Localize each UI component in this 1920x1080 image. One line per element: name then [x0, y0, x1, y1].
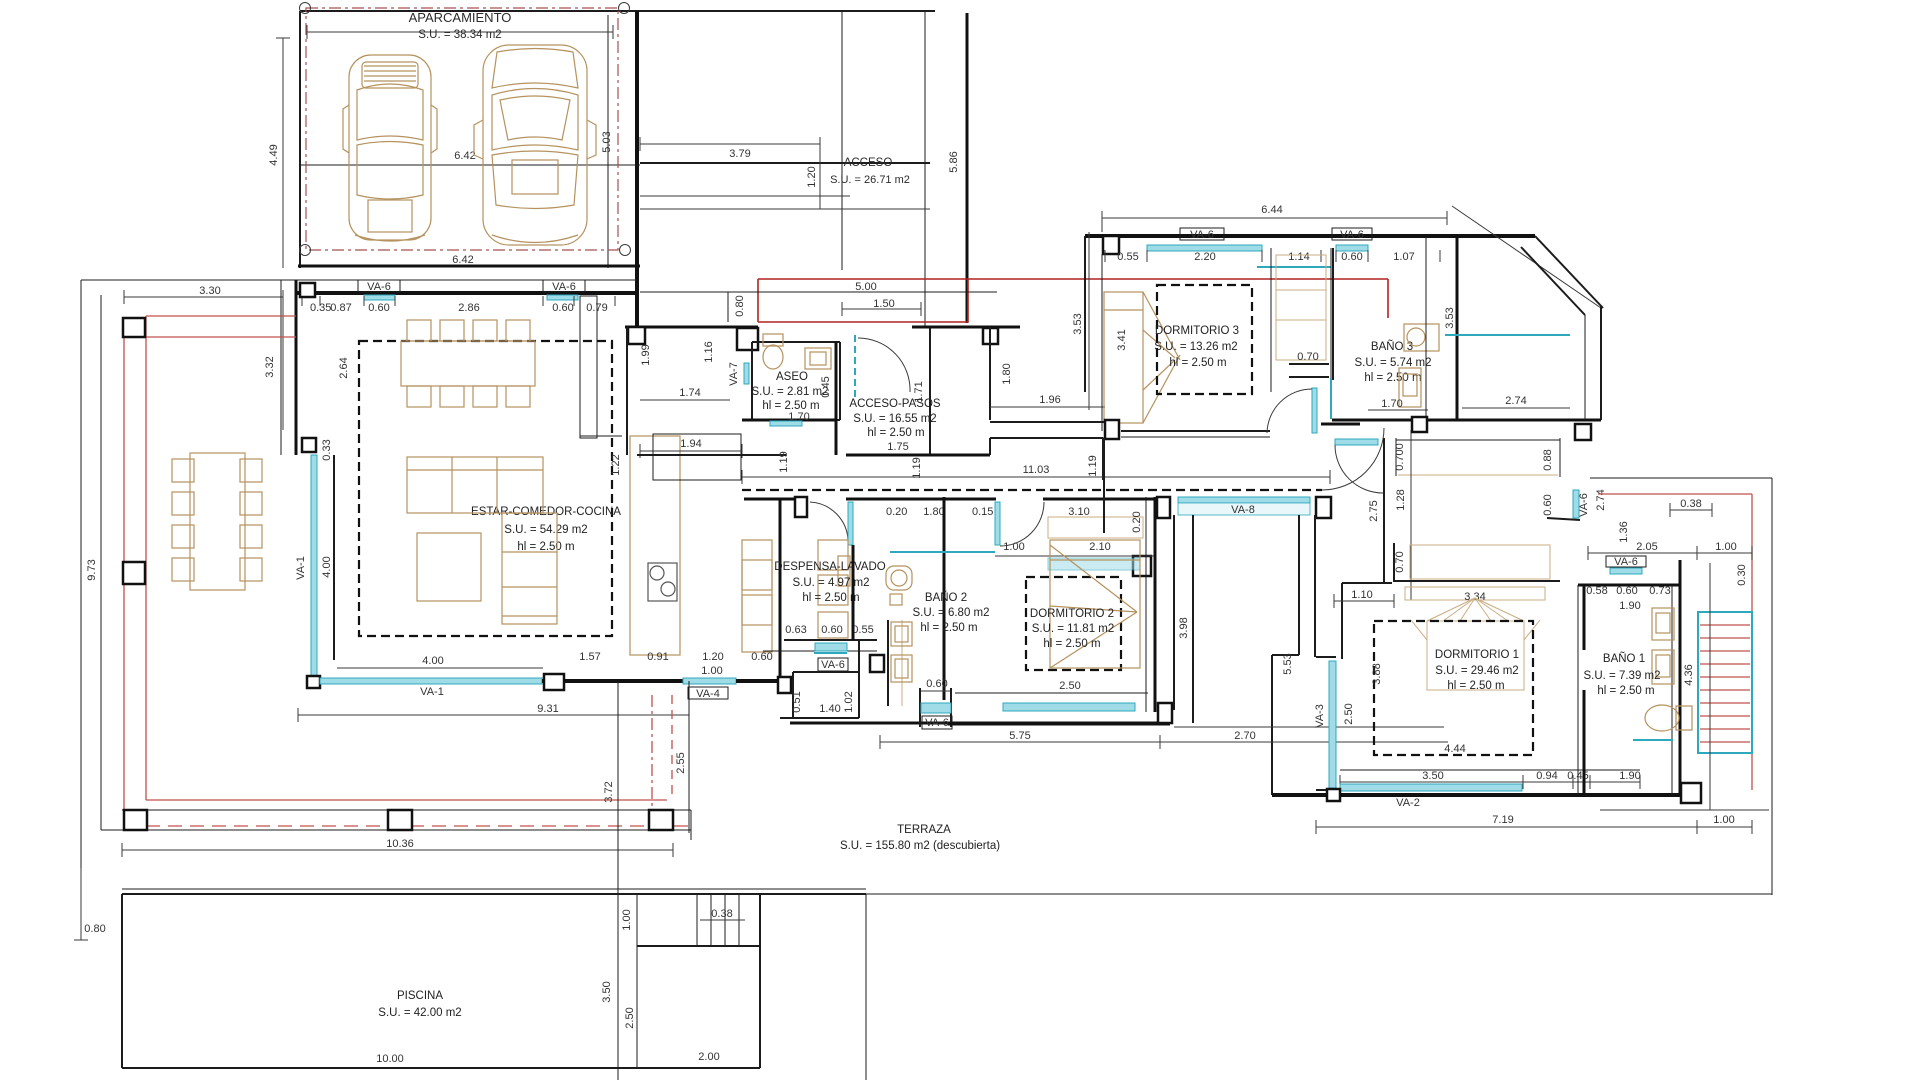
steps bottom [637, 945, 760, 947]
porch step vertical [727, 292, 729, 322]
svg-text:2.70: 2.70 [1234, 730, 1255, 742]
dorm3 bed [1104, 292, 1180, 423]
pillar despensa SE [870, 655, 884, 672]
svg-text:10.36: 10.36 [386, 838, 414, 850]
garage bottom wall [298, 265, 640, 268]
svg-text:5.86: 5.86 [948, 151, 960, 172]
svg-text:0.60: 0.60 [552, 302, 573, 314]
svg-text:VA-6: VA-6 [1190, 229, 1214, 241]
svg-text:2.75: 2.75 [1368, 500, 1380, 521]
corner terrace cyan window [1445, 334, 1570, 336]
svg-text:VA-1: VA-1 [420, 686, 444, 698]
svg-text:3.50: 3.50 [601, 981, 613, 1002]
corridor to dorm1: verticals [1547, 518, 1580, 520]
svg-text:VA-6: VA-6 [367, 281, 391, 293]
bano2 shower cyan [890, 551, 995, 553]
dorm1 bottom wall [1272, 793, 1700, 797]
svg-text:1.22: 1.22 [610, 454, 622, 475]
window VA-6 bano3 cyan [1336, 245, 1368, 251]
dim line 6.05 top [307, 31, 613, 33]
piscina right wall [759, 894, 761, 1068]
wing top wall [1085, 234, 1535, 238]
acceso left wall [841, 11, 843, 270]
svg-text:VA-7: VA-7 [728, 362, 740, 386]
window VA-7 cyan left [744, 363, 749, 384]
dim 0.38 [1670, 509, 1712, 511]
dining table [401, 320, 535, 407]
svg-text:2.50: 2.50 [1059, 680, 1080, 692]
dim 1.74 [640, 399, 730, 401]
entry steps block [792, 672, 794, 718]
svg-text:4.44: 4.44 [1444, 743, 1465, 755]
terraza bottom boundary [866, 893, 1772, 895]
dim 3.30 [124, 296, 283, 298]
porch red bottom [758, 321, 968, 323]
closet bottom frame [1289, 363, 1329, 365]
stairs [1698, 563, 1752, 810]
window VA-1 vertical cyan [311, 455, 317, 676]
svg-text:2.50: 2.50 [624, 1007, 636, 1028]
dorm2 right wall [1145, 497, 1147, 712]
svg-text:1.80: 1.80 [1001, 363, 1013, 384]
svg-text:VA-8: VA-8 [1231, 504, 1255, 516]
red roof line top [146, 315, 296, 317]
svg-text:0.70: 0.70 [1394, 551, 1406, 572]
bano3 sink [1404, 324, 1439, 351]
svg-text:2.20: 2.20 [1194, 251, 1215, 263]
dorm3 dashed box [1157, 285, 1252, 394]
window VA-6 left label box [358, 280, 400, 292]
dorm3 bottom wall [1121, 430, 1270, 432]
cyan door frame bano2 left [848, 502, 853, 545]
corridor south wall left piece [744, 498, 806, 501]
kitchen tall column [580, 296, 597, 438]
svg-text:VA-6: VA-6 [821, 659, 845, 671]
svg-text:0.63: 0.63 [785, 624, 806, 636]
aseo left wall [626, 327, 628, 455]
path line low [640, 208, 930, 210]
svg-text:0.94: 0.94 [1536, 770, 1557, 782]
svg-text:1.20: 1.20 [702, 651, 723, 663]
cyan door frame 2 [995, 502, 1000, 545]
right terrace top line [1590, 477, 1772, 479]
door arc corridor right [1322, 428, 1384, 490]
svg-text:1.94: 1.94 [680, 438, 701, 450]
window VA-4 cyan [683, 678, 736, 684]
svg-text:S.U. = 42.00 m2: S.U. = 42.00 m2 [378, 1007, 461, 1019]
svg-text:0.45: 0.45 [820, 376, 832, 397]
entry door swing [858, 338, 910, 392]
svg-text:0.38: 0.38 [1680, 498, 1701, 510]
bano3 left wall [1332, 248, 1334, 380]
pillar wing BR [1681, 783, 1701, 803]
pillar mid left [123, 562, 145, 584]
red roof right top [1598, 493, 1752, 495]
dorm2 window sill [955, 692, 1148, 694]
corner circle BL [300, 245, 311, 256]
svg-text:hl = 2.50 m: hl = 2.50 m [920, 622, 977, 634]
dims 3.50 0.94 0.45 1.90 [1340, 781, 1640, 783]
svg-text:hl = 2.50 m: hl = 2.50 m [517, 541, 574, 553]
porch floor line 2 [842, 308, 921, 310]
svg-text:1.00: 1.00 [1713, 814, 1734, 826]
band right end [690, 810, 692, 840]
dim 2.74 [1462, 407, 1570, 409]
window VA-8 cyan [1178, 497, 1310, 503]
dim 7.19 / 1.00 [1316, 826, 1697, 828]
svg-text:1.10: 1.10 [1351, 589, 1372, 601]
living left wall [295, 280, 298, 455]
svg-text:1.20: 1.20 [806, 166, 818, 187]
svg-text:9.73: 9.73 [86, 559, 98, 580]
svg-text:1.96: 1.96 [1039, 394, 1060, 406]
sofa [407, 457, 557, 624]
svg-text:S.U. = 155.80 m2 (descubierta): S.U. = 155.80 m2 (descubierta) [840, 840, 1000, 852]
piscina bottom wall [122, 1067, 760, 1069]
east wall below [989, 327, 991, 420]
svg-text:hl = 2.50 m: hl = 2.50 m [867, 427, 924, 439]
svg-text:1.00: 1.00 [1003, 541, 1024, 553]
dashed ESTAR boundary [359, 341, 612, 636]
pillar top-left [300, 283, 315, 297]
roof diagonal thin [1452, 206, 1601, 308]
svg-text:0.87: 0.87 [330, 302, 351, 314]
dim 1.10 [1334, 600, 1394, 602]
steps left vertical [636, 894, 638, 1068]
corridor north wall left [637, 454, 786, 456]
porch red left [757, 279, 759, 322]
corner terrace right wall [1600, 306, 1602, 420]
porch red right [967, 279, 969, 322]
svg-text:0.55: 0.55 [1117, 251, 1138, 263]
kitchen counter right [742, 540, 772, 652]
svg-text:VA-4: VA-4 [696, 688, 720, 700]
svg-text:S.U. = 13.26 m2: S.U. = 13.26 m2 [1154, 341, 1237, 353]
wing west upper wall [1383, 438, 1385, 583]
corner terrace bottom wall [1332, 419, 1601, 422]
svg-text:1.74: 1.74 [679, 387, 700, 399]
dim 1.96 [990, 406, 1105, 408]
svg-text:0.55: 0.55 [852, 624, 873, 636]
svg-text:hl = 2.50 m: hl = 2.50 m [1447, 680, 1504, 692]
porch floor line [640, 291, 997, 293]
svg-text:TERRAZA: TERRAZA [897, 824, 951, 836]
svg-text:BAÑO 2: BAÑO 2 [925, 591, 967, 604]
closet tan [1405, 545, 1550, 600]
pillar aseo top left [628, 327, 645, 344]
terrace right wall [1771, 478, 1773, 895]
svg-text:S.U. = 54.29 m2: S.U. = 54.29 m2 [504, 524, 587, 536]
svg-text:3.30: 3.30 [199, 285, 220, 297]
svg-text:S.U. = 38.34 m2: S.U. = 38.34 m2 [418, 29, 501, 41]
svg-text:0.60: 0.60 [821, 624, 842, 636]
dim 4.49 vertical [282, 38, 284, 268]
dorm1 dashed box [1374, 621, 1533, 755]
hall window cyan [1335, 439, 1378, 445]
living bottom wall right segment [736, 679, 784, 683]
despensa bottom wall [784, 639, 877, 641]
svg-text:9.31: 9.31 [537, 703, 558, 715]
long vertical to piscina [617, 681, 619, 1080]
pillar aseo top right [737, 328, 758, 350]
svg-text:DORMITORIO 2: DORMITORIO 2 [1030, 608, 1114, 620]
svg-text:ACCESO: ACCESO [844, 157, 893, 169]
svg-text:2.55: 2.55 [675, 752, 687, 773]
dim 1.94 [640, 450, 742, 452]
svg-text:1.00: 1.00 [1715, 541, 1736, 553]
svg-text:DORMITORIO 3: DORMITORIO 3 [1155, 325, 1239, 337]
svg-text:DORMITORIO 1: DORMITORIO 1 [1435, 649, 1519, 661]
svg-text:hl = 2.50 m: hl = 2.50 m [1597, 685, 1654, 697]
path divider vertical [819, 144, 821, 209]
svg-text:3.32: 3.32 [264, 356, 276, 377]
closet top band [1396, 439, 1560, 441]
bano2 sinks [891, 622, 912, 682]
svg-text:1.19: 1.19 [778, 451, 790, 472]
svg-text:0.35: 0.35 [310, 302, 331, 314]
wing left wall [1084, 236, 1086, 392]
svg-text:0.60: 0.60 [926, 678, 947, 690]
bano3 right wall [1425, 236, 1427, 420]
svg-text:S.U. = 16.55 m2: S.U. = 16.55 m2 [853, 413, 936, 425]
svg-text:11.03: 11.03 [1023, 464, 1050, 476]
wing west wall to window [1341, 583, 1343, 659]
svg-text:1.28: 1.28 [1395, 489, 1407, 510]
east court wall [966, 13, 969, 323]
closet frame top [1394, 543, 1560, 581]
dorm1 bottom sill [1340, 769, 1640, 771]
VA-6 vertical window [1573, 490, 1579, 518]
terrace bottom band top line [122, 809, 691, 811]
pillar below dorm2 [1158, 703, 1172, 723]
svg-text:5.00: 5.00 [855, 281, 876, 293]
svg-text:PISCINA: PISCINA [397, 990, 443, 1002]
svg-text:0.15: 0.15 [972, 506, 993, 518]
svg-text:0.88: 0.88 [1542, 449, 1554, 470]
terraza block left wall [865, 894, 867, 1080]
svg-text:0.70: 0.70 [1297, 351, 1318, 363]
hall door arc [1335, 445, 1383, 493]
despensa shelving tan [818, 540, 850, 638]
svg-text:0.58: 0.58 [1586, 585, 1607, 597]
pillar bottom-left [307, 676, 320, 688]
living top wall [296, 291, 637, 295]
bano1 fixtures tan [1645, 608, 1692, 731]
porch red top [758, 278, 1388, 280]
dorm2 bed [1050, 540, 1140, 668]
closet track cyan [1257, 266, 1331, 268]
svg-text:1.36: 1.36 [1618, 521, 1630, 542]
terrace inner left [100, 295, 102, 830]
pillar band right [649, 810, 673, 830]
dorm3 hall door arc [1267, 389, 1312, 433]
door frame teal [1330, 378, 1332, 419]
svg-text:1.90: 1.90 [1619, 770, 1640, 782]
garage left wall [299, 11, 301, 268]
svg-text:1.00: 1.00 [701, 665, 722, 677]
pillar below corner [1575, 424, 1591, 440]
outdoor table [172, 453, 262, 590]
bano1 cyan line [1633, 739, 1673, 741]
pillar corridor right [1157, 497, 1170, 518]
svg-text:1.40: 1.40 [819, 703, 840, 715]
dim 11.03 [742, 476, 1330, 478]
svg-text:ASEO: ASEO [776, 371, 808, 383]
VA-6 window top bano1 [1610, 568, 1642, 574]
svg-text:1.57: 1.57 [579, 651, 600, 663]
despensa bottom window VA-6 [815, 643, 847, 651]
svg-text:0.30: 0.30 [1736, 564, 1748, 585]
car 1 (left) [343, 55, 437, 241]
svg-text:2.74: 2.74 [1595, 489, 1607, 510]
svg-text:1.02: 1.02 [843, 691, 855, 712]
svg-text:0.60: 0.60 [368, 302, 389, 314]
svg-text:1.16: 1.16 [703, 341, 715, 362]
svg-text:1.00: 1.00 [621, 909, 633, 930]
window VA-6 right label box [543, 280, 585, 292]
svg-text:ACCESO-PASOS: ACCESO-PASOS [849, 398, 940, 410]
kitchen island [630, 436, 680, 655]
terrace outer top [81, 279, 637, 281]
svg-text:0.60: 0.60 [1341, 251, 1362, 263]
svg-text:3.72: 3.72 [603, 781, 615, 802]
svg-text:1.19: 1.19 [911, 457, 923, 478]
svg-text:VA-2: VA-2 [1396, 797, 1420, 809]
closet dorm2 [1048, 517, 1143, 538]
bano2 washbasin round [886, 566, 912, 605]
bano2 dim 0.60 [921, 690, 952, 692]
svg-text:2.05: 2.05 [1636, 541, 1657, 553]
red roof left [145, 316, 147, 800]
svg-text:3.79: 3.79 [729, 148, 750, 160]
svg-text:0.91: 0.91 [647, 651, 668, 663]
svg-text:hl = 2.50 m: hl = 2.50 m [802, 592, 859, 604]
window VA-6 left cyan [364, 295, 395, 300]
svg-text:2.74: 2.74 [1505, 395, 1526, 407]
dim 5.75 / 2.70 [1174, 726, 1444, 728]
svg-text:S.U. = 26.71 m2: S.U. = 26.71 m2 [830, 174, 910, 186]
svg-text:4.36: 4.36 [1683, 664, 1695, 685]
dormitorio2 dashed box [1026, 577, 1121, 670]
pillar right porch [983, 328, 998, 344]
toilet aseo [763, 334, 783, 369]
terrace bottom band bottom line [101, 829, 691, 831]
corner circle TL [300, 3, 311, 14]
pillar mid-left [302, 438, 316, 452]
svg-text:4.00: 4.00 [321, 556, 333, 577]
svg-text:VA-6: VA-6 [1578, 493, 1590, 517]
bano1 top wall [1578, 584, 1680, 587]
garage right thick wall [635, 11, 639, 330]
svg-text:3.41: 3.41 [1116, 329, 1128, 350]
aseo bottom window cyan [770, 421, 802, 426]
svg-text:3.98: 3.98 [1178, 617, 1190, 638]
wing step wall [1342, 582, 1392, 584]
svg-text:1.50: 1.50 [873, 298, 894, 310]
VA-2 window cyan [1340, 784, 1522, 791]
sink aseo [805, 348, 831, 369]
red line bottom [146, 799, 667, 801]
second vertical [688, 681, 690, 833]
bano1 left wall [1577, 585, 1579, 795]
svg-text:1.71: 1.71 [913, 381, 925, 402]
svg-text:1.80: 1.80 [923, 506, 944, 518]
bano3/terrace wall [1456, 236, 1459, 420]
bano2 bottom window VA-6 [919, 688, 921, 727]
svg-text:3.53: 3.53 [1444, 307, 1456, 328]
garage inner right line [607, 15, 609, 268]
dorm3 closet frame [1270, 248, 1272, 392]
living interior wall right of window col [333, 455, 335, 660]
svg-text:APARCAMIENTO: APARCAMIENTO [409, 10, 512, 25]
pillar steps NW [778, 677, 791, 693]
svg-text:S.U. = 6.80 m2: S.U. = 6.80 m2 [912, 607, 989, 619]
dim 9.31 [298, 714, 689, 716]
pillar terrace TL [123, 318, 145, 337]
svg-text:10.00: 10.00 [376, 1053, 404, 1065]
svg-text:6.42: 6.42 [454, 150, 475, 162]
corridor north wall right [846, 454, 990, 457]
piscina top wall [122, 888, 866, 890]
dim 1.70 [1368, 409, 1428, 411]
svg-text:2.64: 2.64 [338, 357, 350, 378]
dim 0.38b [700, 919, 745, 921]
terrace outer left [80, 280, 82, 868]
pillar band mid [388, 810, 412, 830]
pillar band left [124, 810, 147, 830]
door swing bano2 [1000, 502, 1044, 546]
svg-text:VA-6: VA-6 [925, 717, 949, 729]
svg-text:S.U. = 29.46 m2: S.U. = 29.46 m2 [1435, 665, 1518, 677]
wall below porch right [912, 326, 1020, 329]
dorm3 hall door cyan [1312, 388, 1317, 433]
svg-text:3.10: 3.10 [1068, 506, 1089, 518]
window VA-6 right cyan [547, 295, 578, 300]
acceso-pasos right wall [929, 327, 931, 455]
corner circle BR [620, 245, 631, 256]
bano2 left wall [852, 545, 855, 640]
svg-text:5.03: 5.03 [601, 131, 613, 152]
dim 4.00 bottom [337, 667, 543, 669]
aseo bottom thick [742, 419, 836, 422]
living bottom wall segment [542, 679, 683, 683]
dim 3.53 rotated left [1088, 232, 1090, 410]
svg-text:S.U. = 2.81 m2: S.U. = 2.81 m2 [751, 386, 828, 398]
pillar wing TL [1103, 236, 1119, 254]
window VA-1 bottom cyan [320, 678, 542, 684]
svg-text:0.60: 0.60 [1616, 585, 1637, 597]
bano2 bottom wall [873, 722, 1170, 725]
svg-text:2.00: 2.00 [698, 1051, 719, 1063]
hall walls below VA8 [1173, 515, 1175, 710]
svg-text:3.50: 3.50 [1422, 770, 1443, 782]
bano2 right wall [943, 497, 946, 700]
dim 10.36 [122, 849, 673, 851]
svg-text:DESPENSA-LAVADO: DESPENSA-LAVADO [774, 561, 885, 573]
svg-text:0.38: 0.38 [711, 908, 732, 920]
svg-text:1.70: 1.70 [1381, 398, 1402, 410]
svg-text:0.73: 0.73 [1649, 585, 1670, 597]
dim 6.44 [1102, 217, 1447, 219]
svg-text:5.75: 5.75 [1009, 730, 1030, 742]
svg-text:0.80: 0.80 [84, 923, 105, 935]
piscina left wall [121, 894, 123, 1068]
svg-text:6.44: 6.44 [1261, 204, 1282, 216]
pillar [795, 497, 807, 517]
svg-text:ESTAR-COMEDOR-COCINA: ESTAR-COMEDOR-COCINA [471, 506, 621, 518]
svg-text:1.07: 1.07 [1393, 251, 1414, 263]
svg-text:0.20: 0.20 [1131, 511, 1143, 532]
